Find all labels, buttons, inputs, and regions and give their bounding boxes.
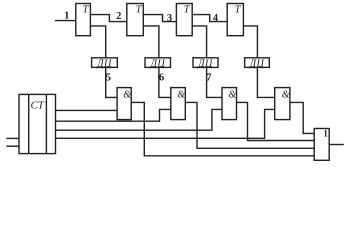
svg-text:T: T <box>136 5 143 16</box>
svg-text:1: 1 <box>64 11 69 22</box>
svg-text:&: & <box>228 89 236 100</box>
svg-text:&: & <box>282 89 290 100</box>
svg-text:&: & <box>177 89 185 100</box>
svg-text:CT: CT <box>30 99 44 111</box>
svg-text:3: 3 <box>167 13 172 24</box>
svg-text:2: 2 <box>116 11 121 22</box>
svg-text:1: 1 <box>323 128 328 138</box>
svg-text:T: T <box>82 5 89 16</box>
svg-text:ДЦ: ДЦ <box>197 58 213 69</box>
svg-text:4: 4 <box>213 13 219 24</box>
svg-text:5: 5 <box>106 72 111 83</box>
svg-text:&: & <box>123 89 131 100</box>
svg-text:ДЦ: ДЦ <box>249 58 265 69</box>
svg-text:T: T <box>235 5 242 16</box>
svg-text:T: T <box>184 5 191 16</box>
svg-text:ДЦ: ДЦ <box>149 58 165 69</box>
svg-text:6: 6 <box>159 72 164 83</box>
svg-text:ДЦ: ДЦ <box>96 58 112 69</box>
svg-text:7: 7 <box>206 72 211 83</box>
